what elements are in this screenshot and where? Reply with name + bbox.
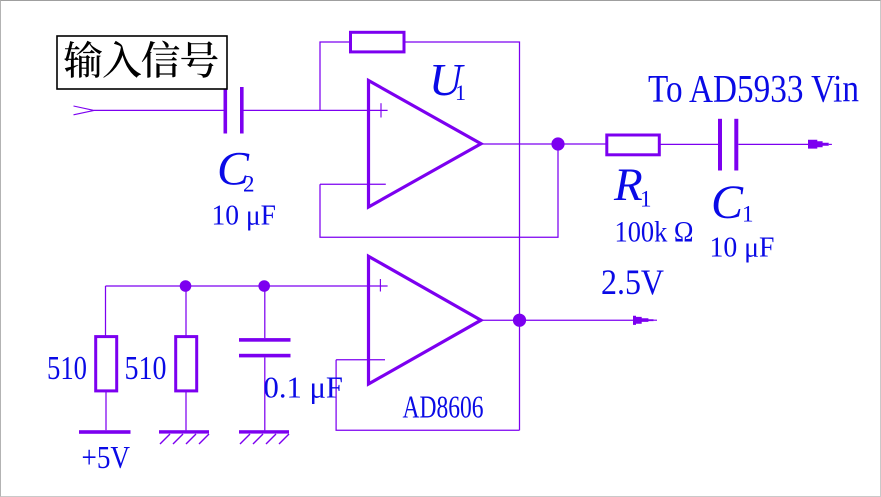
svg-text:1: 1 (455, 80, 466, 105)
svg-text:R: R (613, 159, 643, 211)
svg-text:0.1 μF: 0.1 μF (264, 370, 344, 405)
svg-text:C: C (711, 176, 744, 229)
svg-text:1: 1 (640, 187, 652, 212)
svg-text:510: 510 (47, 350, 87, 387)
svg-text:10 μF: 10 μF (212, 200, 277, 232)
svg-text:100k Ω: 100k Ω (615, 216, 694, 249)
svg-text:AD8606: AD8606 (403, 389, 484, 425)
svg-text:10 μF: 10 μF (710, 232, 775, 264)
svg-text:2.5V: 2.5V (601, 262, 664, 302)
svg-text:2: 2 (243, 172, 255, 197)
svg-text:+5V: +5V (82, 439, 131, 475)
svg-text:1: 1 (742, 202, 754, 227)
svg-text:510: 510 (125, 350, 167, 387)
svg-text:To AD5933 Vin: To AD5933 Vin (648, 68, 859, 111)
